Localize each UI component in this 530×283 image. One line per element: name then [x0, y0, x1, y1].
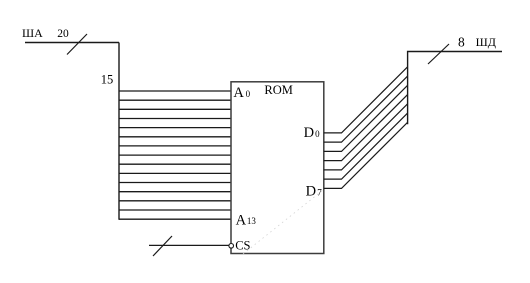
svg-text:20: 20 — [57, 28, 69, 40]
svg-text:0: 0 — [315, 129, 320, 139]
svg-text:15: 15 — [101, 72, 114, 86]
svg-text:0: 0 — [246, 89, 251, 99]
svg-text:A: A — [233, 85, 244, 101]
svg-text:ША: ША — [22, 26, 43, 40]
svg-text:13: 13 — [247, 216, 257, 226]
svg-text:7: 7 — [317, 188, 322, 198]
svg-text:ШД: ШД — [476, 35, 496, 49]
svg-text:8: 8 — [458, 35, 465, 50]
svg-text:ROM: ROM — [264, 83, 292, 97]
svg-text:D: D — [304, 125, 314, 141]
svg-text:A: A — [236, 212, 247, 228]
